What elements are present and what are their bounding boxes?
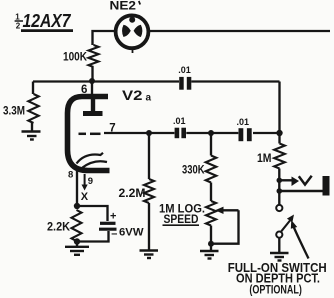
switch arm [281, 221, 290, 232]
wire top rail left of NE2 [93, 31, 118, 45]
switch terminal upper [276, 205, 282, 211]
resistor 2.2K [72, 210, 82, 241]
wire pot bottom [210, 226, 212, 251]
wire 3.3M bottom [31, 123, 33, 131]
svg-text:.01: .01 [173, 116, 186, 126]
tube type label 1/2 12AX7 [15, 13, 21, 31]
svg-text:9: 9 [88, 176, 93, 187]
wire wiper loop to pot bottom [211, 210, 239, 243]
svg-text:(OPTIONAL): (OPTIONAL) [249, 282, 302, 296]
wire grid rail [104, 132, 174, 134]
jack tip contact [277, 178, 283, 184]
plate of V2a [91, 99, 95, 111]
node 2.2K bottom junction [74, 238, 80, 244]
wire 1M bottom to jack [278, 169, 280, 205]
ground under pot [200, 251, 219, 259]
wire cathode lead pin 8 [76, 170, 78, 206]
svg-text:X: X [81, 191, 89, 203]
capacitor .01 middle [175, 128, 186, 139]
svg-text:12AX7: 12AX7 [23, 11, 72, 31]
pin 9 arrow [84, 174, 86, 185]
tube V2a envelope [68, 97, 110, 171]
svg-text:100K: 100K [63, 50, 87, 64]
wire plate lead pin 6 [91, 81, 93, 96]
ground under 2.2K [65, 247, 89, 255]
svg-text:+: + [110, 211, 116, 223]
svg-text:V2: V2 [122, 87, 143, 103]
wire 330K to pot [210, 183, 212, 202]
capacitor .01 right [239, 128, 252, 141]
cathode of V2a [77, 153, 104, 164]
wire 2.2M bottom [148, 203, 150, 250]
potentiometer 1M LOG speed [206, 201, 216, 225]
resistor 3.3M [28, 94, 38, 123]
wire 1M top [278, 133, 280, 144]
resistor 330K [206, 156, 217, 183]
svg-text:a: a [146, 92, 152, 103]
svg-text:330K: 330K [182, 164, 205, 176]
svg-text:2: 2 [16, 22, 21, 31]
ground under switch [270, 253, 289, 261]
jack sleeve [277, 188, 283, 194]
svg-text:3.3M: 3.3M [3, 106, 25, 118]
wire to ground [76, 242, 78, 247]
resistor 2.2M [144, 179, 154, 203]
node junction plate/100K/3.3M [89, 78, 95, 84]
node cathode junction [74, 203, 80, 209]
wire switch to ground [278, 238, 280, 252]
resistor 100K [89, 45, 99, 67]
svg-text:6VW: 6VW [119, 227, 144, 239]
svg-text:2.2K: 2.2K [47, 221, 71, 233]
wire upper rail [33, 80, 179, 82]
wire 330K top [210, 133, 212, 156]
wire cathode junction to cap [77, 206, 108, 221]
node grid/2.2M junction [146, 130, 152, 136]
switch terminal lower [276, 232, 282, 238]
svg-text:8: 8 [68, 170, 73, 181]
wire cap bottom [77, 231, 109, 242]
node pot bottom junction [208, 241, 214, 247]
ground under 2.2M [140, 251, 159, 259]
jack plug body [323, 176, 330, 196]
annotation arrow to switch [294, 227, 309, 259]
capacitor .01 upper [179, 77, 191, 90]
ground under 3.3M [22, 132, 41, 140]
svg-text:–: – [111, 228, 117, 240]
svg-text:1M: 1M [257, 151, 272, 165]
wire upper rail corner down to grid rail [278, 82, 280, 134]
wire 2.2M top [148, 133, 150, 179]
resistor 1M [274, 144, 285, 169]
wire 100K bottom to upper rail [91, 67, 93, 82]
pot wiper arrow [215, 207, 224, 214]
svg-text:1: 1 [15, 13, 20, 22]
wire 3.3M top [32, 82, 34, 95]
grid of V2a (dashed) pin 7 [79, 133, 87, 136]
svg-text:SPEED: SPEED [164, 214, 199, 226]
capacitor 6VW electrolytic [100, 222, 116, 225]
wire top rail right of NE2 [147, 30, 330, 32]
node grid/330K junction [208, 130, 214, 136]
svg-text:.01: .01 [178, 65, 191, 75]
svg-text:.01: .01 [237, 117, 250, 127]
svg-text:NE2: NE2 [110, 1, 137, 13]
node grid/1M junction [276, 130, 282, 136]
svg-text:6: 6 [81, 84, 87, 96]
svg-text:2.2M: 2.2M [119, 188, 146, 200]
neon bulb NE2 [116, 15, 149, 48]
